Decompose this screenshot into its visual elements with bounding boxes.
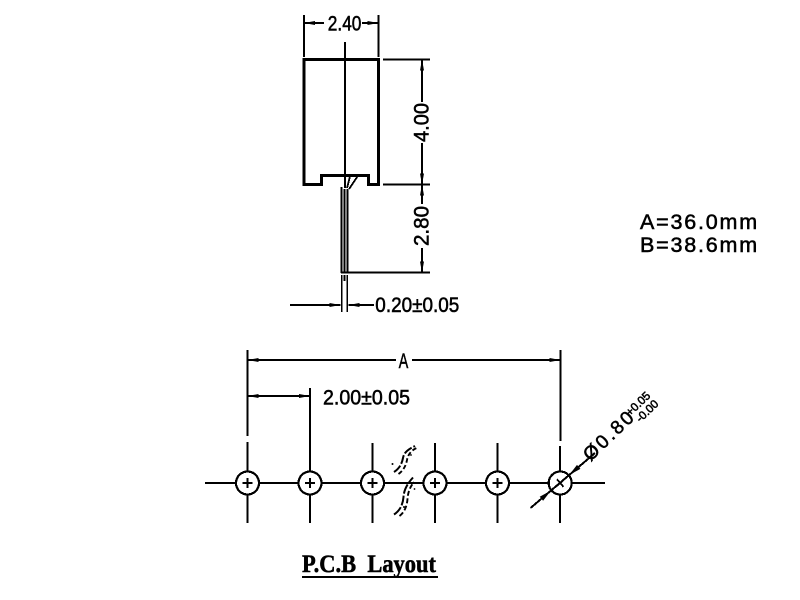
title P.C.B Layout [302,551,438,578]
svg-text:2.00±0.05: 2.00±0.05 [323,386,410,409]
leader line for pad diameter [531,453,596,508]
leader text Ø0.80 +0.05/-0.00 [579,389,661,469]
dimension A [248,350,561,441]
svg-text:0.20±0.05: 0.20±0.05 [375,294,459,317]
dimension 2.80 [341,185,434,273]
pad plus marks [243,476,568,490]
dimension 2.00±0.05 [248,386,411,442]
pad row center line [205,482,605,484]
svg-text:P.C.B Layout: P.C.B Layout [302,551,437,578]
pad vertical lines [247,442,249,523]
svg-text:2.40: 2.40 [328,12,362,35]
dimension 2.40 [304,12,379,57]
pads (circles drawn over lines) [236,472,572,495]
svg-text:A: A [399,350,409,373]
center line [344,42,346,188]
svg-text:4.00: 4.00 [411,103,434,142]
svg-text:B=38.6mm: B=38.6mm [640,233,759,257]
dimension 0.20±0.05 [290,294,459,317]
dimension 4.00 [383,60,434,185]
pin (bent leads) [342,177,358,313]
svg-text:2.80: 2.80 [411,206,434,246]
housing outline [304,60,379,185]
break mark [392,446,417,516]
svg-text:A=36.0mm: A=36.0mm [640,210,759,234]
